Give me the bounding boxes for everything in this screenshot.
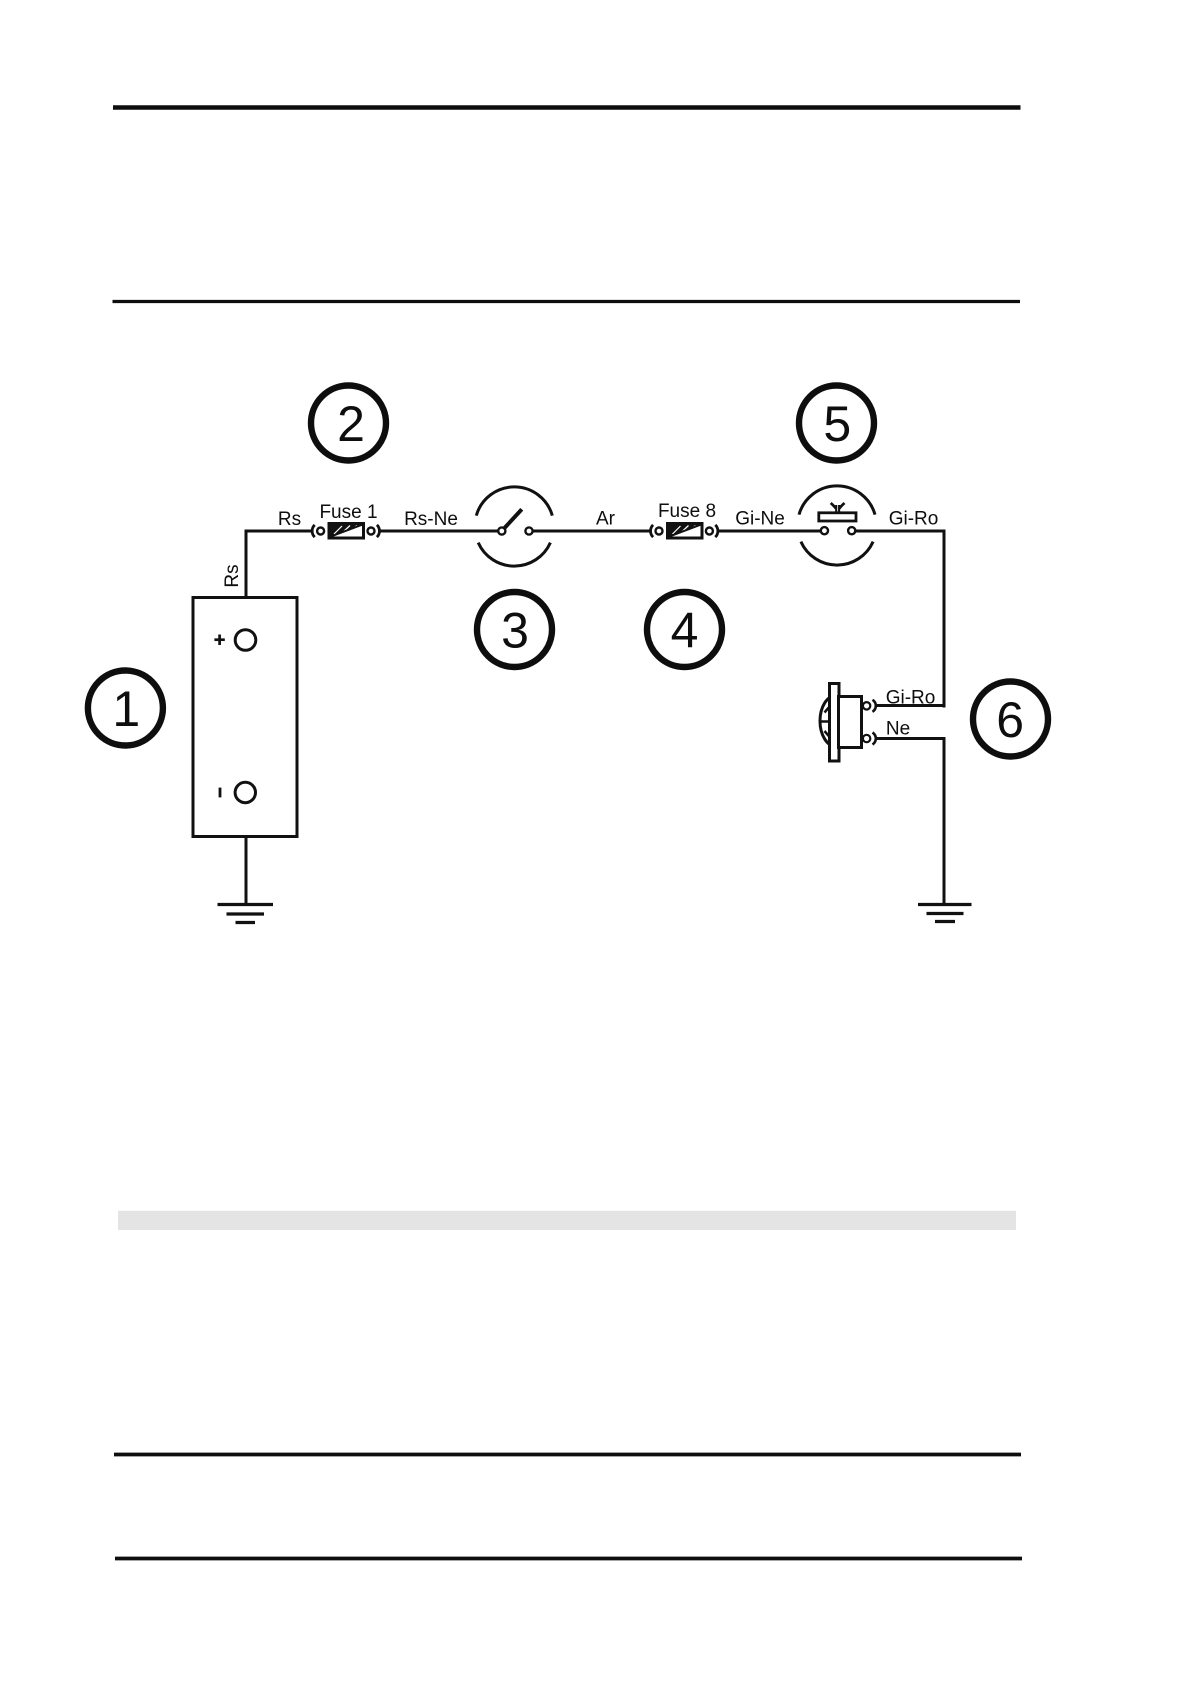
ground (battery)	[218, 905, 274, 923]
wire: horn Gi-Ro lead	[875, 704, 946, 707]
gray divider bar	[118, 1211, 1016, 1230]
wire: switch to fuse 8	[533, 530, 651, 533]
wire: fuse 8 to horn button	[718, 530, 821, 533]
callout 1	[88, 671, 163, 746]
callout 4	[647, 592, 722, 667]
svg-text:Rs-Ne: Rs-Ne	[404, 509, 458, 530]
fuse F1	[312, 524, 379, 539]
pushbutton SW2 (horn button, item 5)	[799, 486, 875, 565]
svg-text:Gi-Ne: Gi-Ne	[735, 509, 785, 530]
svg-text:6: 6	[996, 692, 1024, 748]
page rule top	[113, 105, 1021, 109]
wire: fuse 1 to ignition switch	[379, 530, 498, 533]
page rule third	[114, 1453, 1021, 1457]
svg-text:Fuse 8: Fuse 8	[658, 501, 716, 522]
svg-text:Fuse 1: Fuse 1	[319, 502, 377, 523]
svg-text:1: 1	[112, 681, 140, 737]
wire: right drop to horn	[943, 530, 946, 708]
svg-text:2: 2	[337, 396, 365, 452]
svg-text:Ne: Ne	[886, 719, 910, 740]
switch SW1 (ignition switch, item 3)	[476, 487, 552, 566]
svg-text:4: 4	[671, 603, 699, 659]
svg-text:3: 3	[501, 603, 529, 659]
horn H1 (item 6)	[820, 684, 876, 762]
svg-text:Gi-Ro: Gi-Ro	[889, 509, 939, 530]
page rule fourth	[115, 1557, 1022, 1561]
wire: battery negative lead	[245, 837, 248, 905]
svg-text:Rs: Rs	[222, 564, 243, 587]
battery B1 (item 1)	[193, 598, 297, 837]
page rule second	[113, 300, 1021, 303]
callout 3	[477, 592, 552, 667]
wire: main feed to fuse 1	[245, 530, 313, 533]
svg-text:Rs: Rs	[278, 509, 301, 530]
wire: horn Ne lead	[875, 737, 946, 740]
callout 6	[973, 682, 1048, 757]
wire: right drop to ground	[943, 737, 946, 905]
svg-text:5: 5	[823, 396, 851, 452]
callout 2	[311, 386, 386, 461]
callout 5	[799, 386, 874, 461]
wire: horn button to corner	[856, 530, 946, 533]
svg-text:Ar: Ar	[596, 509, 616, 530]
ground (horn)	[918, 905, 972, 922]
wire: battery positive riser	[245, 530, 248, 599]
fuse F8	[651, 524, 718, 539]
svg-text:Gi-Ro: Gi-Ro	[886, 687, 936, 708]
